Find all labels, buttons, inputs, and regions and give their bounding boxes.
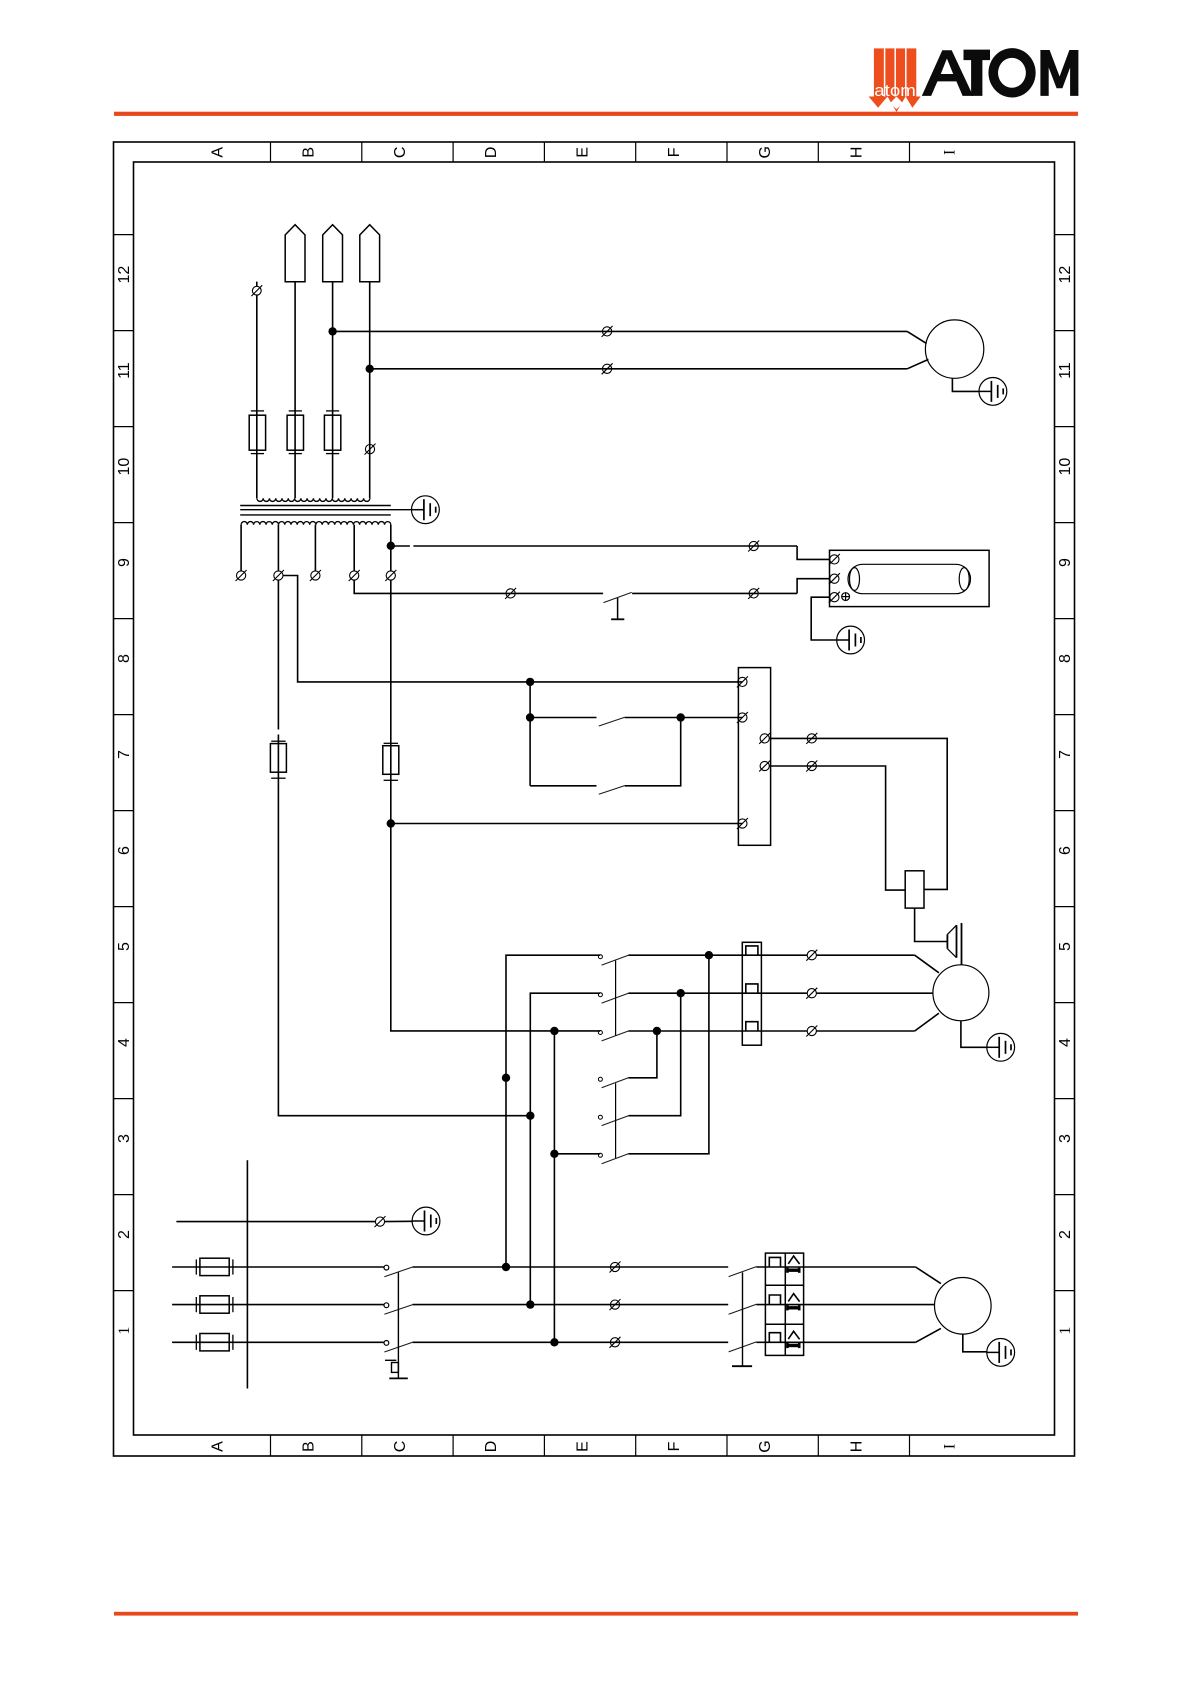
wire secondary tap <box>240 525 242 571</box>
terminal X3:4 <box>349 570 360 581</box>
frame inner border <box>134 162 1055 1435</box>
wire <box>756 1304 934 1306</box>
wire secondary tap <box>390 525 392 571</box>
Q2 bottom bar <box>732 1365 752 1367</box>
wire <box>632 592 797 594</box>
wire to earth <box>952 378 979 391</box>
wire phase L1 <box>172 1266 384 1268</box>
wire <box>915 1013 939 1031</box>
svg-text:3: 3 <box>116 1134 133 1143</box>
wire <box>625 718 681 786</box>
main switch Q1 pole 3 <box>384 1341 389 1346</box>
svg-text:7: 7 <box>1057 750 1074 759</box>
terminal X4:2 <box>505 588 516 599</box>
motor M3 <box>925 320 983 378</box>
node junction <box>550 1027 558 1035</box>
switch S1 actuator <box>617 598 619 619</box>
svg-text:G: G <box>757 146 774 158</box>
node junction <box>526 1112 534 1120</box>
wire tap5 down <box>391 580 600 1031</box>
svg-text:5: 5 <box>1057 942 1074 951</box>
svg-text:I: I <box>941 1444 958 1449</box>
supply bus line <box>246 1160 248 1388</box>
svg-text:E: E <box>575 147 592 158</box>
terminal X1:4 <box>365 444 376 455</box>
frame row dividers <box>114 235 1075 1291</box>
svg-text:H: H <box>848 147 865 159</box>
wire resistor to brake <box>915 908 947 941</box>
svg-text:A: A <box>209 147 226 158</box>
terminal X9:2 <box>806 761 817 772</box>
svg-text:4: 4 <box>1057 1038 1074 1047</box>
wire row1 out <box>628 954 807 956</box>
terminal X2:2 <box>602 363 613 374</box>
terminal X8:3 <box>610 1337 621 1348</box>
node junction <box>502 1074 510 1082</box>
svg-text:11: 11 <box>1057 362 1074 379</box>
wire tap2 down <box>277 580 279 729</box>
contactor K2 contact 2 <box>598 1115 602 1119</box>
terminal X3:3 <box>310 570 321 581</box>
Q1 handle <box>385 1359 396 1361</box>
svg-text:6: 6 <box>1057 846 1074 855</box>
terminal X4:3 <box>748 588 759 599</box>
svg-text:8: 8 <box>116 654 133 663</box>
transformer T1 secondary winding <box>241 522 391 525</box>
node junction <box>502 1263 510 1271</box>
wire M1 earth <box>961 1021 987 1048</box>
svg-text:atom: atom <box>874 82 916 100</box>
main switch Q1 pole 2 <box>384 1303 389 1308</box>
node junction <box>653 1027 661 1035</box>
fluorescent tube <box>848 564 971 593</box>
wire lower branch <box>530 785 596 787</box>
node junction <box>387 819 395 827</box>
contactor K1 contact 2 <box>598 993 602 997</box>
svg-text:C: C <box>392 1441 409 1453</box>
motor M1 <box>933 965 989 1021</box>
switch S3 blade <box>599 786 625 795</box>
svg-text:12: 12 <box>1057 266 1074 284</box>
svg-text:9: 9 <box>1057 558 1074 567</box>
terminal X5:3 <box>759 733 770 744</box>
svg-text:E: E <box>574 1441 591 1452</box>
svg-text:2: 2 <box>1057 1230 1074 1239</box>
wire L0 down <box>256 295 258 498</box>
contactor K2 contact 1 <box>598 1077 602 1081</box>
lamp unit E1 housing <box>830 550 990 606</box>
svg-text:10: 10 <box>1057 458 1074 476</box>
svg-text:6: 6 <box>116 846 133 855</box>
fuse F7 <box>196 1296 233 1313</box>
earth PE M2 <box>987 1339 1015 1367</box>
fuse F6 <box>196 1258 233 1275</box>
node junction <box>705 951 713 959</box>
terminal E1:1 <box>829 554 840 565</box>
brake resistor R1 <box>905 871 924 908</box>
terminal X3:2 <box>273 570 284 581</box>
svg-text:D: D <box>483 147 500 159</box>
pin connector X1:2 <box>323 225 343 282</box>
svg-text:2: 2 <box>116 1230 133 1239</box>
terminal X6:3 <box>806 1026 817 1037</box>
terminal X6:1 <box>806 950 817 961</box>
earth wire N/PE <box>176 1221 375 1223</box>
Q1 bottom bar <box>389 1377 408 1379</box>
node junction <box>526 1300 534 1308</box>
svg-text:4: 4 <box>116 1038 133 1047</box>
terminal X3:1 <box>236 570 247 581</box>
svg-text:F: F <box>666 147 683 157</box>
terminal X5:4 <box>759 761 770 772</box>
wire row3 out <box>628 1030 807 1032</box>
svg-text:3: 3 <box>1057 1134 1074 1143</box>
terminal X9:1 <box>806 733 817 744</box>
node junction <box>550 1338 558 1346</box>
overload relay F9 <box>765 1253 803 1355</box>
svg-text:10: 10 <box>116 458 133 476</box>
brake Y1 cone <box>947 923 961 965</box>
node junction <box>677 989 685 997</box>
switch S2 blade <box>599 717 625 726</box>
terminal X5:1 <box>737 676 748 687</box>
earth PE core <box>412 496 440 524</box>
node junction <box>550 1150 558 1158</box>
frame column letters <box>209 146 958 1453</box>
wire tap4 <box>354 580 603 593</box>
earth terminal mark <box>842 593 850 601</box>
svg-text:G: G <box>757 1440 774 1452</box>
svg-text:1: 1 <box>116 1327 133 1335</box>
fuse F4 <box>270 741 286 778</box>
node junction <box>526 713 534 721</box>
earth PE lamp <box>837 626 865 654</box>
node junction tap5 <box>387 542 395 550</box>
main switch Q1 linkage <box>397 1272 399 1378</box>
wire row5 up <box>628 993 680 1115</box>
earth PE M1 <box>987 1033 1015 1061</box>
fuse F1 <box>249 411 265 454</box>
wire <box>413 1341 729 1343</box>
ATOM logo text <box>922 48 1079 97</box>
wire <box>756 1266 915 1268</box>
wire M2 earth <box>963 1334 987 1352</box>
isolator Q2 linkage <box>742 1272 744 1366</box>
transformer T1 primary winding <box>257 498 370 501</box>
wire <box>413 1266 729 1268</box>
frame outer border <box>114 142 1075 1456</box>
wire to M2 <box>916 1328 941 1342</box>
wire secondary tap <box>277 525 279 571</box>
wire row4 up <box>628 1031 657 1078</box>
wire <box>816 1030 914 1032</box>
isolator Q2 blade 2 <box>729 1304 757 1314</box>
terminal E1:3 <box>829 592 840 603</box>
terminal X8:1 <box>610 1262 621 1273</box>
wire to lamp (with gap) <box>391 545 410 547</box>
wire tap2 branch <box>283 576 742 682</box>
wire <box>915 955 939 973</box>
svg-text:9: 9 <box>116 558 133 567</box>
wire X5:3 to brake resistor <box>769 738 947 889</box>
contactor K1 linkage <box>615 961 617 1036</box>
frame column dividers <box>271 142 910 1456</box>
svg-text:F: F <box>666 1441 683 1451</box>
svg-text:B: B <box>301 147 318 158</box>
svg-text:1: 1 <box>1057 1327 1074 1335</box>
node junction <box>677 713 685 721</box>
fuse F2 <box>287 411 303 454</box>
wire phase risers <box>506 955 600 1267</box>
terminal X0 slash circle <box>256 282 258 287</box>
terminal X0:1 <box>251 285 262 296</box>
wire lamp to earth <box>811 597 837 640</box>
svg-text:C: C <box>392 147 409 159</box>
orange top rule <box>114 112 1078 116</box>
orange bottom rule <box>114 1612 1078 1616</box>
wire <box>797 579 829 594</box>
svg-text:H: H <box>848 1441 865 1453</box>
frame row numbers <box>116 266 1074 1335</box>
terminal X7:PE <box>375 1216 386 1227</box>
terminal E1:2 <box>829 573 840 584</box>
wire <box>816 992 933 994</box>
wire to strip <box>391 823 743 825</box>
isolator Q2 blade 3 <box>729 1342 757 1352</box>
contactor K1 contact 1 <box>598 955 602 959</box>
earth PE M3 <box>979 378 1007 406</box>
terminal X4:1 <box>748 541 759 552</box>
svg-text:7: 7 <box>116 750 133 759</box>
wire <box>294 282 296 499</box>
svg-text:B: B <box>301 1441 318 1452</box>
terminal X6:2 <box>806 988 817 999</box>
wire <box>369 282 371 499</box>
wire <box>816 954 914 956</box>
fuse F5 <box>383 743 399 780</box>
wire <box>907 331 926 343</box>
contactor K2 contact 3 <box>598 1153 602 1157</box>
terminal strip X5 <box>738 668 770 846</box>
wire phase L3 <box>172 1341 384 1343</box>
fuse F3 <box>324 411 340 454</box>
svg-text:I: I <box>941 150 958 155</box>
isolator Q2 blade 1 <box>729 1267 757 1277</box>
pin connector X1:1 <box>285 225 305 282</box>
terminal X8:2 <box>610 1299 621 1310</box>
svg-text:12: 12 <box>116 266 133 284</box>
terminal X5:5 <box>737 818 748 829</box>
svg-text:5: 5 <box>116 942 133 951</box>
wire <box>797 546 829 559</box>
wire phase L2 <box>172 1304 384 1306</box>
svg-text:8: 8 <box>1057 654 1074 663</box>
terminal X5:2 <box>737 712 748 723</box>
wire <box>413 1304 729 1306</box>
main switch Q1 pole 1 <box>384 1265 389 1270</box>
earth PE supply <box>412 1207 440 1235</box>
wire to fan motor M3 <box>333 330 908 332</box>
switch S1 blade <box>604 592 632 602</box>
contactor K1 contact 3 <box>598 1031 602 1035</box>
wire secondary tap <box>314 525 316 571</box>
connector block X6 <box>742 942 761 1045</box>
wire X5:4 to brake resistor <box>769 766 905 890</box>
fuse F8 <box>196 1334 233 1351</box>
svg-text:A: A <box>209 1441 226 1452</box>
wire <box>385 1220 413 1222</box>
wire <box>530 717 596 719</box>
wire row2 out <box>628 992 807 994</box>
svg-text:11: 11 <box>116 362 133 379</box>
wire row6 up <box>554 1153 600 1155</box>
wire S2/S3 loop <box>529 682 531 786</box>
terminal X3:5 <box>385 570 396 581</box>
wire <box>332 282 334 499</box>
ATOM logo arrows <box>869 48 1079 112</box>
contactor K2 linkage <box>615 1083 617 1158</box>
wire <box>907 359 928 368</box>
terminal X2:1 <box>602 326 613 337</box>
wire to fan motor M3 <box>370 368 908 370</box>
wire <box>756 1341 915 1343</box>
wire secondary tap <box>353 525 355 571</box>
node junction <box>526 678 534 686</box>
node junction <box>328 327 336 335</box>
wire <box>625 717 743 719</box>
svg-text:D: D <box>483 1441 500 1453</box>
motor M2 <box>935 1278 992 1335</box>
node junction <box>366 365 374 373</box>
pin connector X1:3 <box>360 225 380 282</box>
transformer core <box>240 505 391 507</box>
wire to M2 <box>916 1267 941 1284</box>
